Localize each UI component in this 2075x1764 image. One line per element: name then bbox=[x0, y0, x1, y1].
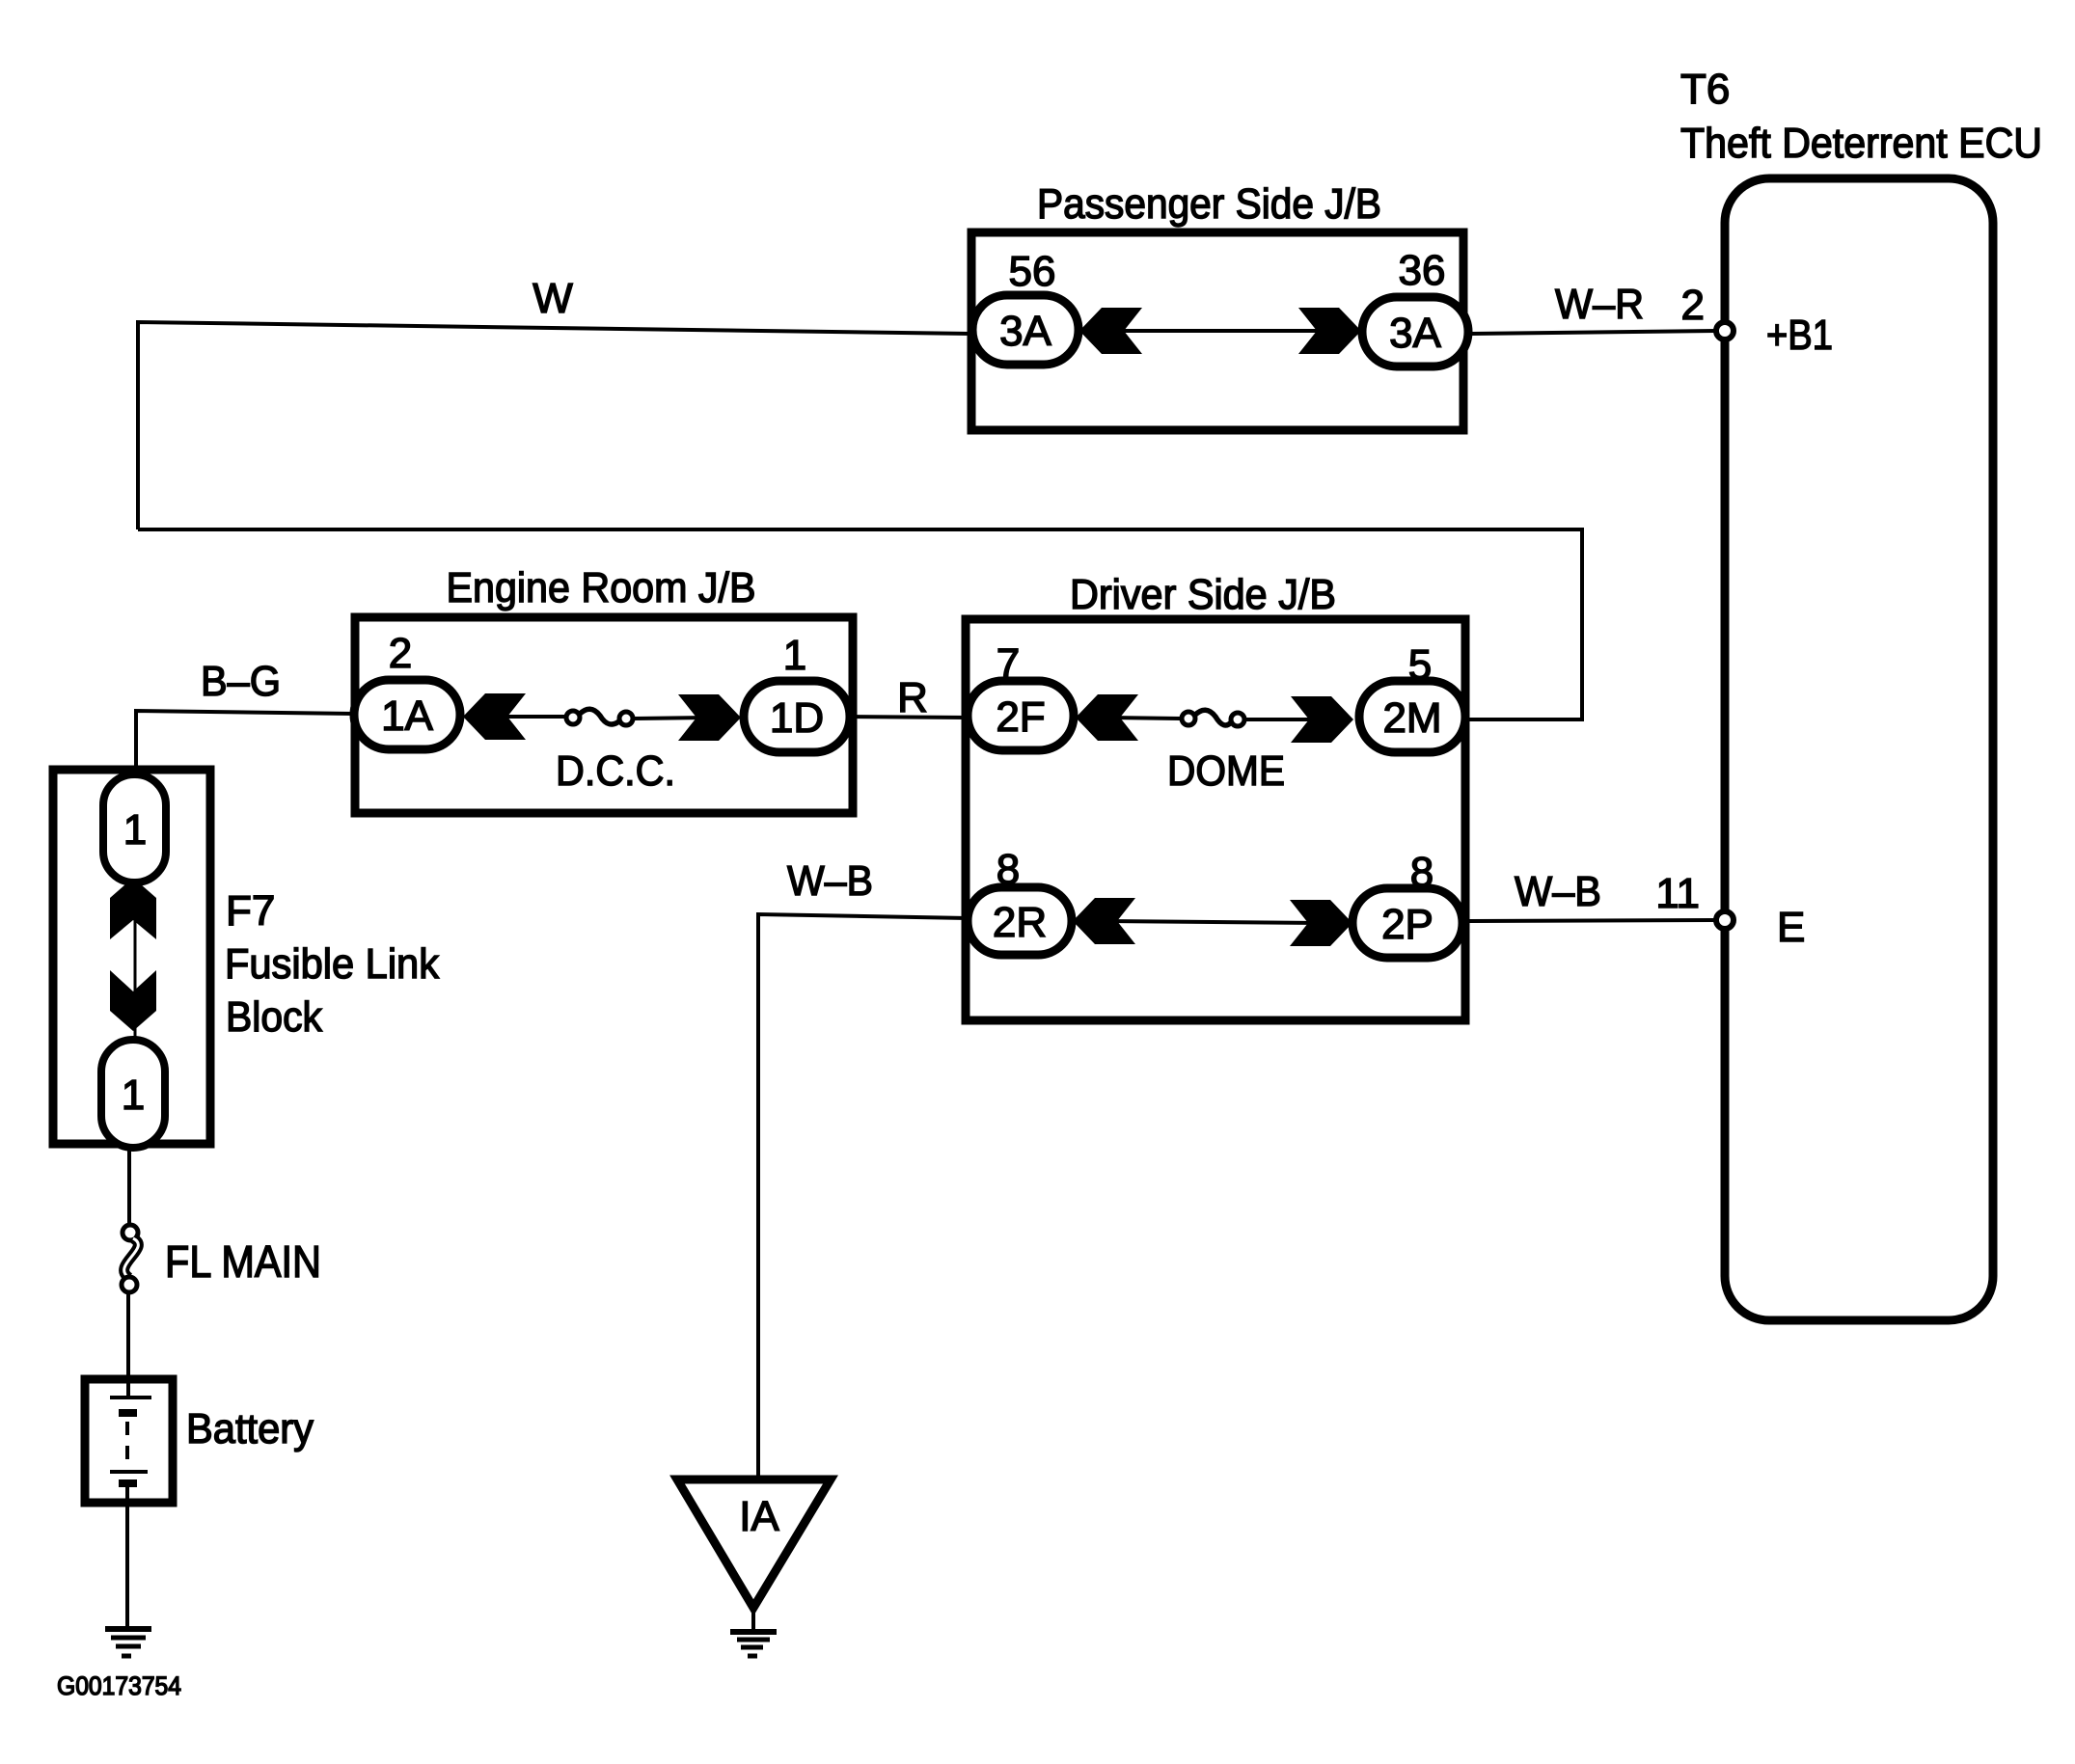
connector 1D bbox=[744, 681, 850, 752]
svg-text:G00173754: G00173754 bbox=[57, 1671, 181, 1700]
arrow (left, Driver J/B row 2) bbox=[1073, 898, 1135, 944]
svg-text:W–R: W–R bbox=[1555, 281, 1644, 328]
svg-text:T6: T6 bbox=[1680, 66, 1730, 113]
wire W-R (3A to ECU pin 2) bbox=[1468, 331, 1717, 334]
connector 3A (pin 56) bbox=[972, 295, 1078, 365]
svg-text:E: E bbox=[1777, 904, 1805, 951]
connector 2R bbox=[968, 887, 1072, 955]
wire W (battery feed to Passenger Side J/B) bbox=[138, 322, 972, 529]
wire (inside Engine Room J/B) bbox=[496, 715, 565, 719]
svg-text:2P: 2P bbox=[1381, 901, 1433, 948]
arrow (left, Engine Room J/B) bbox=[463, 693, 526, 740]
fuse DOME circles and element bbox=[1182, 712, 1195, 725]
svg-text:2F: 2F bbox=[996, 693, 1045, 741]
svg-text:2R: 2R bbox=[993, 899, 1047, 946]
arrow (up, F7) bbox=[110, 878, 156, 939]
wire B-G (fusible link block to 1A) bbox=[136, 711, 355, 776]
fusible link FL MAIN bbox=[123, 1225, 138, 1240]
wire (inside Passenger J/B between connectors) bbox=[1109, 329, 1331, 333]
Driver Side J/B box bbox=[966, 619, 1465, 1020]
svg-text:1: 1 bbox=[123, 806, 147, 854]
wire (triangle apex to ground) bbox=[751, 1608, 755, 1631]
svg-text:Theft Deterrent ECU: Theft Deterrent ECU bbox=[1680, 120, 2042, 167]
ground connector IA triangle bbox=[677, 1479, 831, 1608]
arrow (right, Driver J/B row 2) bbox=[1290, 900, 1352, 946]
arrow (left, Driver J/B row 1) bbox=[1076, 694, 1138, 741]
svg-text:D.C.C.: D.C.C. bbox=[556, 747, 675, 795]
arrow (right, Passenger J/B) bbox=[1298, 308, 1361, 354]
connector 3A (pin 36) bbox=[1362, 297, 1468, 366]
wire (long return line from 2M to W wire loop) bbox=[138, 529, 1582, 719]
svg-text:2: 2 bbox=[1681, 282, 1705, 329]
connector 1A bbox=[354, 680, 460, 749]
svg-text:W–B: W–B bbox=[1515, 868, 1601, 915]
fuse D.C.C. circles and element bbox=[566, 711, 580, 724]
connector 2P bbox=[1352, 888, 1462, 958]
ground (battery) bbox=[105, 1626, 151, 1632]
svg-text:11: 11 bbox=[1655, 870, 1700, 917]
svg-text:1: 1 bbox=[122, 1072, 145, 1119]
connector 1 (top of F7) bbox=[103, 774, 166, 882]
arrow (right, Engine Room J/B) bbox=[678, 694, 741, 741]
svg-text:R: R bbox=[897, 674, 928, 721]
svg-text:36: 36 bbox=[1399, 247, 1446, 294]
svg-text:W–B: W–B bbox=[787, 857, 873, 905]
arrow (left, Passenger J/B) bbox=[1079, 308, 1142, 354]
svg-text:Battery: Battery bbox=[186, 1405, 314, 1452]
svg-text:1A: 1A bbox=[381, 692, 433, 740]
wire (inside Driver J/B row 1) bbox=[1108, 718, 1181, 719]
svg-text:F7: F7 bbox=[226, 887, 275, 935]
svg-text:1: 1 bbox=[783, 632, 806, 679]
battery box bbox=[85, 1379, 173, 1503]
ground (IA) bbox=[730, 1629, 777, 1635]
wire (F7 to FL MAIN) bbox=[127, 1148, 131, 1226]
svg-text:+B1: +B1 bbox=[1766, 312, 1833, 359]
svg-text:3A: 3A bbox=[999, 308, 1051, 355]
wire (between F7 connectors) bbox=[134, 873, 137, 1042]
svg-text:DOME: DOME bbox=[1167, 747, 1285, 795]
wire (battery to ground) bbox=[125, 1487, 129, 1628]
svg-text:1D: 1D bbox=[770, 694, 824, 742]
pin 2 terminal circle bbox=[1716, 322, 1734, 339]
svg-text:2: 2 bbox=[389, 630, 412, 677]
svg-text:56: 56 bbox=[1009, 248, 1056, 295]
svg-text:Block: Block bbox=[226, 993, 323, 1041]
svg-text:FL MAIN: FL MAIN bbox=[165, 1236, 321, 1287]
svg-text:3A: 3A bbox=[1389, 310, 1441, 357]
battery plates bbox=[110, 1396, 151, 1399]
svg-text:Fusible Link: Fusible Link bbox=[225, 940, 440, 988]
wire W-B (2R to ground IA) bbox=[758, 914, 968, 1479]
F7 Fusible Link Block box bbox=[53, 770, 210, 1144]
svg-text:Passenger Side J/B: Passenger Side J/B bbox=[1037, 180, 1381, 228]
connector 1 (bottom of F7) bbox=[101, 1040, 165, 1148]
wire R (1D to 2F) bbox=[850, 717, 969, 718]
arrow (right, Driver J/B row 1) bbox=[1291, 696, 1353, 743]
Passenger Side J/B box bbox=[971, 232, 1463, 430]
connector 2F bbox=[968, 681, 1074, 750]
svg-text:2M: 2M bbox=[1382, 694, 1441, 742]
wire (FL MAIN to battery) bbox=[126, 1292, 130, 1397]
connector 2M bbox=[1359, 681, 1465, 752]
svg-text:Engine Room J/B: Engine Room J/B bbox=[447, 564, 756, 611]
svg-text:Driver Side J/B: Driver Side J/B bbox=[1070, 571, 1336, 618]
pin 11 terminal circle bbox=[1716, 911, 1734, 929]
Theft Deterrent ECU T6 box bbox=[1725, 178, 1993, 1320]
Engine Room J/B box bbox=[355, 617, 853, 813]
wire (inside Driver J/B row 2) bbox=[1106, 921, 1320, 923]
wire W-B (2P to ECU pin 11) bbox=[1463, 920, 1716, 921]
svg-text:B–G: B–G bbox=[201, 658, 281, 705]
svg-text:IA: IA bbox=[739, 1493, 779, 1540]
svg-text:W: W bbox=[532, 275, 573, 322]
arrow (down, F7) bbox=[110, 970, 156, 1031]
